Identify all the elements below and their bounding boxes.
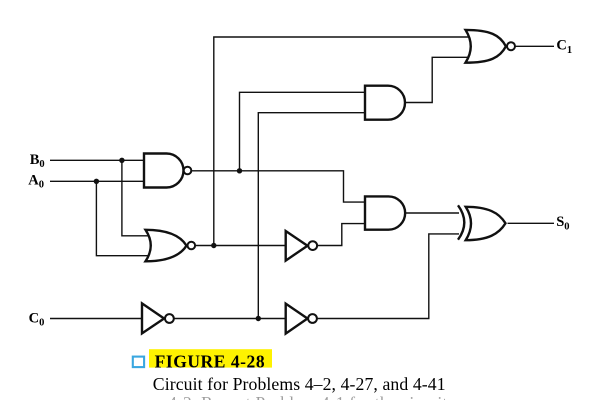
svg-text:S0: S0 (556, 214, 569, 232)
inverter1 bubble (165, 314, 174, 323)
wire B0 branch down to NOR gate top input (122, 160, 149, 236)
wire NAND output branch up to top AND gate top input (240, 92, 366, 171)
wire XOR gate output to S0 (508, 222, 555, 224)
wire C0 input (50, 318, 142, 320)
wire C0-inverted branch up to top AND gate bottom input (258, 113, 365, 319)
XOR gate leading input arc (458, 205, 464, 239)
wire middle AND output to XOR gate top input (404, 212, 459, 214)
wire middle inverter output to middle AND gate bottom input (318, 224, 365, 246)
inverter2 bubble (308, 314, 317, 323)
inverter2 (bottom middle) (286, 304, 308, 334)
junction node on inverter1 output (256, 316, 261, 321)
junction node on NAND output (237, 168, 242, 173)
inverter1 (input C0) (142, 303, 164, 333)
wire NOR output branch up and across to output NOR gate top input (214, 37, 470, 246)
output NOR gate (output C1) (466, 30, 506, 63)
NAND gate output bubble (184, 167, 192, 175)
middle AND gate (365, 196, 405, 229)
middle inverter (NOR output) (286, 231, 308, 261)
wire inverter1 output to inverter2 input (174, 318, 286, 320)
junction node on NOR output (211, 243, 216, 248)
junction node on A0 wire (94, 179, 99, 184)
top AND gate (365, 86, 405, 120)
wire A0 input (50, 180, 144, 182)
figure caption bullet square (133, 357, 144, 368)
NAND gate (inputs B0, A0) (144, 154, 184, 188)
middle inverter bubble (308, 241, 317, 250)
wire inverter2 output up to XOR gate bottom input (317, 234, 459, 319)
svg-text:Circuit for Problems 4–2, 4-27: Circuit for Problems 4–2, 4-27, and 4-41 (153, 374, 446, 394)
svg-text:C0: C0 (29, 310, 45, 328)
wire A0 branch down to NOR gate bottom input (96, 181, 149, 255)
wire top AND output up to output NOR gate bottom input (406, 57, 471, 102)
wire output NOR gate to C1 (516, 45, 555, 47)
svg-text:C1: C1 (556, 38, 572, 56)
NOR gate (inputs B0, A0) (146, 230, 187, 261)
output NOR gate bubble (507, 42, 515, 50)
svg-text:A0: A0 (28, 172, 44, 190)
NOR gate output bubble (188, 242, 196, 250)
svg-text:FIGURE 4-28: FIGURE 4-28 (155, 352, 266, 372)
XOR gate (output S0) (466, 207, 506, 240)
wire NOR output to middle inverter input (195, 245, 286, 247)
svg-text:4-2. Repeat Problem 4-1 for th: 4-2. Repeat Problem 4-1 for the circuits (168, 393, 454, 400)
figure caption yellow highlight (149, 349, 272, 367)
svg-text:B0: B0 (30, 152, 45, 170)
wire NAND output to middle AND gate top input (191, 171, 365, 202)
wire B0 input (50, 159, 144, 161)
junction node on B0 wire (119, 158, 124, 163)
